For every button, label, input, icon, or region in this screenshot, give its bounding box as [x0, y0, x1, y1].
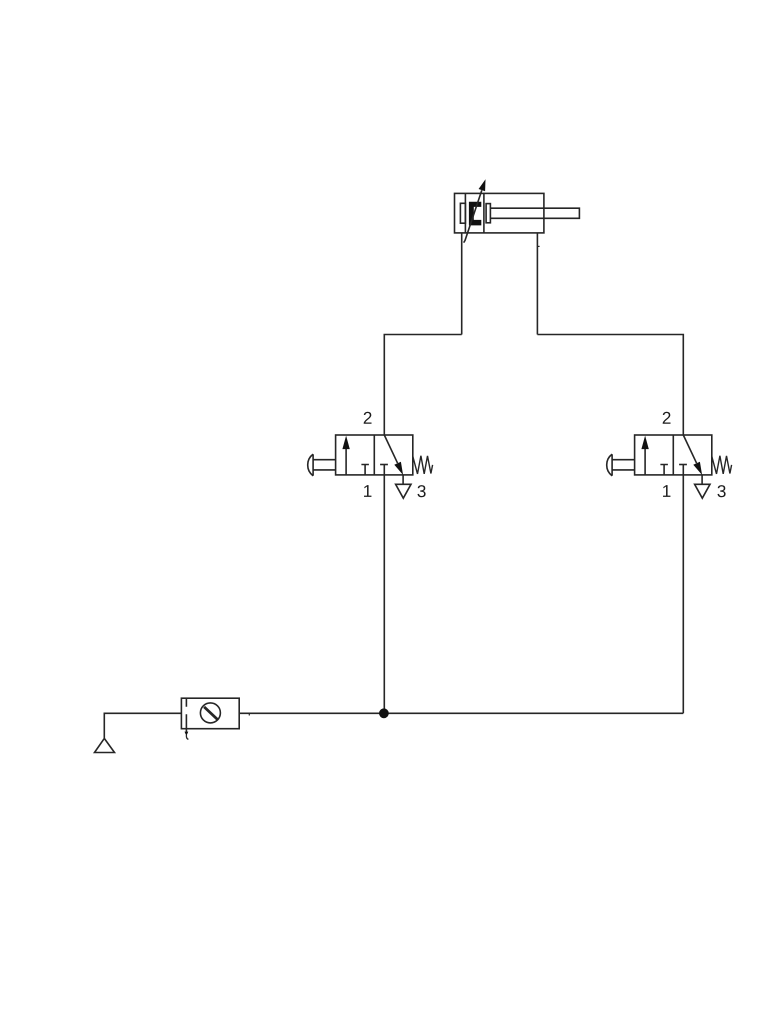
port label 1 valve 1S2 — [663, 485, 670, 497]
wire valve 1S1 port2 to cylinder left port — [384, 335, 461, 436]
cylinder piston rod — [490, 208, 579, 218]
valve 1S1 body — [336, 435, 413, 475]
valve 1S1 exhaust triangle — [396, 484, 411, 498]
port label 3 valve 1S2 — [717, 485, 725, 497]
valve 1S2 exhaust diagonal 2to3 — [683, 435, 696, 463]
valve 1S1 exhaust diagonal 2to3 — [384, 435, 397, 463]
cylinder piston cushion seal (black C) — [469, 202, 481, 226]
node tick on supply wire — [248, 713, 250, 715]
service unit drain line — [185, 729, 187, 733]
service unit regulator circle — [200, 703, 220, 723]
valve 1S2 push button — [607, 454, 612, 476]
valve 1S1 port3 stub — [402, 475, 404, 484]
valve 1S1 return spring — [413, 456, 433, 474]
valve 1S2 left square blocked port T — [660, 465, 668, 475]
service unit filter dashed line — [185, 698, 187, 729]
service unit drain arrowhead — [185, 732, 189, 736]
port label 2 valve 1S2 — [663, 412, 671, 424]
valve 1S1 right square blocked port T bar — [380, 464, 388, 466]
service unit circle slash — [204, 707, 218, 720]
cylinder 1A1 body — [455, 193, 544, 233]
wire cylinder left port down — [461, 233, 463, 335]
wire valve 1S1 port1 down to junction — [383, 465, 385, 714]
valve 1S2 return spring — [712, 456, 732, 474]
service unit drain tail — [186, 735, 188, 739]
cylinder rod-side boss — [486, 204, 490, 223]
cylinder piston left plate — [464, 193, 466, 233]
wire valve 1S2 port2 to cylinder right port — [537, 335, 683, 436]
cylinder piston right plate — [483, 193, 485, 233]
valve 1S2 body — [635, 435, 712, 475]
port label 3 valve 1S1 — [417, 485, 425, 497]
node tick on right port wire — [537, 245, 539, 247]
port label 1 valve 1S1 — [364, 485, 371, 497]
cushion adjust arrow — [464, 190, 482, 242]
wire cylinder right port down — [536, 233, 538, 335]
valve 1S1 left square blocked port T — [361, 465, 369, 475]
port label 2 valve 1S1 — [364, 412, 372, 424]
valve 1S2 exhaust triangle — [695, 484, 710, 498]
valve 1S1 square division — [373, 435, 375, 475]
compressed air source 0Z1 — [95, 738, 115, 752]
valve 1S1 push button — [308, 454, 313, 476]
junction node T1 — [379, 708, 389, 718]
wire supply manifold horizontal — [239, 712, 683, 714]
valve 1S2 port3 stub — [701, 475, 703, 484]
valve 1S2 square division — [672, 435, 674, 475]
valve 1S2 right square blocked port T bar — [679, 464, 687, 466]
wire valve 1S2 port1 down to supply corner — [682, 465, 684, 714]
service unit 0Z2 body — [181, 698, 239, 729]
wire source to service unit — [104, 713, 181, 738]
valve 1S2 left square flow arrow — [644, 446, 646, 475]
cylinder left cushion boss — [460, 203, 465, 223]
valve 1S1 left square flow arrow — [345, 446, 347, 475]
